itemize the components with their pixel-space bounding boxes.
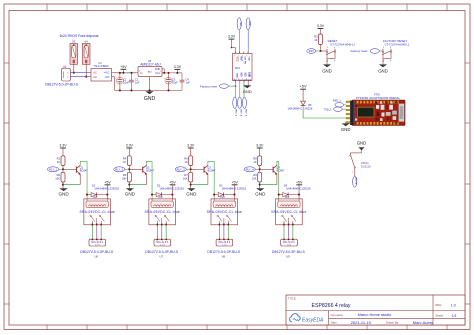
diode D3 (flyback) <box>213 184 246 197</box>
svg-text:GND: GND <box>125 191 136 196</box>
misc pcb parts <box>355 101 404 124</box>
relay output wires <box>283 225 285 239</box>
wire U2 pin2 to U1 <box>70 72 89 74</box>
svg-text:HLK-PM01: HLK-PM01 <box>94 64 109 68</box>
svg-text:Company:: Company: <box>331 313 344 317</box>
svg-text:SRA-05VDC-CL blue: SRA-05VDC-CL blue <box>271 210 306 214</box>
net flag TXD (vertical) <box>237 18 241 30</box>
svg-text:ADJ: ADJ <box>148 70 152 73</box>
ground (PROG) <box>350 141 366 155</box>
wire emitter to ground <box>146 174 148 185</box>
svg-text:2N016: 2N016 <box>304 107 312 111</box>
wire base <box>63 168 76 170</box>
svg-text:AMS1117-ADJ: AMS1117-ADJ <box>140 62 161 66</box>
svg-text:+5V: +5V <box>169 180 176 184</box>
wire D5 to FTDI <box>303 117 346 119</box>
relay output wires <box>218 225 220 239</box>
power flag +5V (relay 2) <box>169 180 176 199</box>
svg-text:RST: RST <box>309 49 315 53</box>
capacitor C2 <box>129 72 140 92</box>
diode D4 (flyback) <box>278 184 311 197</box>
svg-text:MK1: MK1 <box>235 67 241 70</box>
svg-text:-VO: -VO <box>104 75 110 79</box>
relay output wires <box>156 225 158 239</box>
svg-text:3.3V: 3.3V <box>317 24 325 28</box>
wire ESP IO2 down <box>243 80 245 97</box>
svg-text:Marc Aubry: Marc Aubry <box>413 320 433 325</box>
svg-text:DB127V-5.0-3P-BU-S: DB127V-5.0-3P-BU-S <box>80 250 114 254</box>
fuse U3 <box>70 39 78 73</box>
svg-text:1K: 1K <box>184 160 187 164</box>
wire U2 pin1 to U1 <box>70 76 89 78</box>
svg-text:Factory reset: Factory reset <box>351 49 368 53</box>
top pad row <box>357 101 399 104</box>
ground (ESP) <box>243 80 252 94</box>
wire -VO down to ground bus <box>114 76 115 78</box>
svg-text:RLY_1: RLY_1 <box>235 110 237 117</box>
svg-text:ESP8266 4 relay: ESP8266 4 relay <box>312 303 351 309</box>
net flag Factory reset (switch side) <box>351 49 383 54</box>
diode D5 <box>287 89 312 118</box>
power flag 3.3V (driver 2) <box>126 144 134 156</box>
ground (FTDI) <box>341 123 351 131</box>
resistor R5 <box>122 172 132 185</box>
ground (factory reset) <box>378 64 388 73</box>
svg-text:BC847: BC847 <box>208 169 216 173</box>
svg-text:FT232RL ADAPTADOR SERIAL: FT232RL ADAPTADOR SERIAL <box>356 96 401 100</box>
svg-text:1N4148W-C129216: 1N4148W-C129216 <box>286 186 311 190</box>
module FT01 FTDI adaptor serial <box>346 92 405 125</box>
net flag RLY_4 (vertical, PROG) <box>353 176 358 187</box>
resistor R2 <box>55 172 65 185</box>
svg-text:U2: U2 <box>63 64 67 68</box>
svg-text:+5V: +5V <box>300 85 307 89</box>
switch SW1 RESET <box>321 39 356 65</box>
resistor R1 <box>57 156 65 173</box>
wire emitter to ground <box>276 174 278 185</box>
svg-text:RXD_1: RXD_1 <box>333 100 342 103</box>
svg-text:3.3V: 3.3V <box>228 35 236 39</box>
transistor Q4 BC847 <box>273 165 285 175</box>
connector U7 output terminal <box>145 239 179 259</box>
svg-text:R6: R6 <box>184 157 188 161</box>
svg-text:10K: 10K <box>183 177 188 181</box>
svg-text:3: 3 <box>139 71 140 73</box>
net flag RLY_4 (driver input) <box>244 167 260 172</box>
ground (driver 1) <box>58 185 69 197</box>
net flag RLY_2 (driver input) <box>114 167 130 172</box>
net flag RXD (vertical) <box>246 18 250 30</box>
net flag RLY_1 (driver input) <box>47 167 63 172</box>
svg-text:RLY_4: RLY_4 <box>355 178 358 185</box>
net flag RLY_2 (vertical) <box>238 97 242 117</box>
svg-text:2: 2 <box>160 71 161 73</box>
ground (regulator) <box>144 89 156 102</box>
svg-text:+5V: +5V <box>296 180 303 184</box>
net flag RLY_1 (vertical) <box>233 97 237 117</box>
power flag +5V <box>120 65 127 74</box>
resistor R7 <box>183 172 193 185</box>
net flag RLY_3 (driver input) <box>175 167 191 172</box>
wire ESP pin RST column down <box>235 80 237 97</box>
svg-text:3.3V: 3.3V <box>174 65 182 69</box>
svg-text:2021-11-15: 2021-11-15 <box>351 320 372 325</box>
svg-text:2: 2 <box>352 171 353 173</box>
svg-text:3.3V: 3.3V <box>256 144 264 148</box>
wire factory reset to ESP pin <box>228 85 235 87</box>
svg-text:SRA-05VDC-CL blue: SRA-05VDC-CL blue <box>207 210 242 214</box>
resistor R8 <box>253 156 261 173</box>
module MK1 ESP-01S <box>233 52 253 83</box>
svg-text:5x20 RHOS Fuse disposal: 5x20 RHOS Fuse disposal <box>60 34 99 38</box>
svg-text:BC847: BC847 <box>146 169 154 173</box>
ground (driver 3) <box>186 185 197 197</box>
svg-text:GND: GND <box>378 69 388 74</box>
connector U2 (AC input) <box>62 64 71 81</box>
wire collector to relay <box>146 161 148 165</box>
svg-text:BC847: BC847 <box>277 169 285 173</box>
transistor Q1 BC847 <box>76 165 88 175</box>
svg-text:+5V: +5V <box>104 180 111 184</box>
svg-text:R1: R1 <box>57 157 61 161</box>
left header pins <box>346 101 353 125</box>
capacitor C1 <box>115 72 130 92</box>
svg-text:Drawn By:: Drawn By: <box>386 321 400 325</box>
power flag 3.3V (regulator out) <box>174 65 182 74</box>
svg-text:GND: GND <box>186 191 197 196</box>
border ticks top <box>47 4 447 11</box>
border ticks left <box>4 63 9 304</box>
svg-text:U6: U6 <box>94 255 98 259</box>
svg-text:1K: 1K <box>57 160 60 164</box>
svg-text:1N4148W-C129216: 1N4148W-C129216 <box>159 186 184 190</box>
svg-text:CH_PD: CH_PD <box>244 56 246 64</box>
svg-text:GND: GND <box>341 127 351 132</box>
blue pad column <box>354 102 356 122</box>
svg-text:+5V: +5V <box>231 180 238 184</box>
svg-text:1K: 1K <box>253 160 256 164</box>
svg-text:10K: 10K <box>55 177 60 181</box>
wire 3.3V rail <box>164 72 182 74</box>
diode D1 (flyback) <box>86 184 119 197</box>
power flag 3.3V (ESP) <box>228 35 236 54</box>
svg-text:1N4148W-C129216: 1N4148W-C129216 <box>94 186 119 190</box>
svg-text:R2: R2 <box>57 173 61 177</box>
wire TXD to ESP <box>238 30 240 54</box>
wire ESP IO0 down <box>239 80 241 97</box>
relay RL3 SRA-05VDC-CL <box>207 196 242 226</box>
connector U8 output terminal <box>207 239 241 259</box>
svg-text:R8: R8 <box>253 157 257 161</box>
svg-text:D5: D5 <box>308 103 312 107</box>
power flag +5V (relay 1) <box>104 180 111 199</box>
connector U6 output terminal <box>80 239 114 259</box>
svg-text:GT-TC07A4-H045-L1: GT-TC07A4-H045-L1 <box>330 42 355 46</box>
svg-text:R4: R4 <box>123 157 127 161</box>
svg-text:EG1218: EG1218 <box>361 165 371 169</box>
svg-text:VCC: VCC <box>235 56 238 61</box>
svg-text:RL4: RL4 <box>285 196 290 199</box>
svg-text:SRA-05VDC-CL blue: SRA-05VDC-CL blue <box>144 210 179 214</box>
diode D2 (flyback) <box>151 184 184 197</box>
wire base <box>129 168 142 170</box>
svg-text:GND: GND <box>357 141 367 146</box>
svg-text:1K: 1K <box>314 38 317 42</box>
border ticks bottom <box>47 325 447 330</box>
net flag TXD (FTDI side) <box>324 107 346 111</box>
svg-text:Sheet:: Sheet: <box>435 314 444 318</box>
transistor Q3 BC847 <box>204 165 216 175</box>
regulator U5 AMS1117 <box>136 59 165 90</box>
svg-text:Date:: Date: <box>331 321 338 325</box>
svg-text:R9: R9 <box>253 173 257 177</box>
svg-text:R7: R7 <box>184 173 188 177</box>
svg-text:U9: U9 <box>286 255 290 259</box>
wire emitter to ground <box>207 174 209 185</box>
svg-text:10K: 10K <box>252 177 257 181</box>
svg-text:10K: 10K <box>122 177 127 181</box>
resistor R3 <box>314 34 322 52</box>
svg-text:TXD: TXD <box>248 56 250 61</box>
svg-text:3.3V: 3.3V <box>59 144 67 148</box>
connector U9 output terminal <box>272 239 306 259</box>
power flag +5V (relay 3) <box>231 180 238 199</box>
svg-text:GND: GND <box>58 191 69 196</box>
ground (reset) <box>322 64 332 73</box>
relay RL2 SRA-05VDC-CL <box>144 196 179 226</box>
svg-text:8: 8 <box>234 56 235 58</box>
net flag RST <box>307 49 321 54</box>
svg-text:1K: 1K <box>123 160 126 164</box>
wire emitter to ground <box>79 174 81 185</box>
svg-text:Marco Home studio: Marco Home studio <box>358 312 392 317</box>
svg-text:DB127V-5.0-2P-BU-S: DB127V-5.0-2P-BU-S <box>45 82 79 86</box>
net flag RLY_3 (vertical) <box>242 97 246 117</box>
svg-text:U3: U3 <box>72 39 76 43</box>
wire collector to relay <box>207 161 209 165</box>
svg-text:RESET: RESET <box>328 39 338 43</box>
svg-text:GND: GND <box>255 191 266 196</box>
svg-text:GND: GND <box>248 72 251 78</box>
capacitor C3 <box>164 72 179 92</box>
svg-text:DB127V-5.0-3P-BU-S: DB127V-5.0-3P-BU-S <box>145 250 179 254</box>
svg-text:EasyEDA: EasyEDA <box>302 318 324 324</box>
svg-text:AC: AC <box>93 75 97 79</box>
svg-text:PROG: PROG <box>361 161 369 165</box>
svg-text:U7: U7 <box>159 255 163 259</box>
svg-text:IO0: IO0 <box>240 73 243 78</box>
svg-text:GT-TC07A4-H045-L1: GT-TC07A4-H045-L1 <box>385 42 410 46</box>
svg-text:RST: RST <box>240 57 243 62</box>
svg-text:RL1: RL1 <box>93 196 98 199</box>
svg-text:1uF: 1uF <box>185 81 190 85</box>
power flag 3.3V (driver 1) <box>59 144 67 156</box>
svg-text:SRA-05VDC-CL blue: SRA-05VDC-CL blue <box>79 210 114 214</box>
svg-text:TXD: TXD <box>239 22 241 27</box>
svg-text:1N4148W-C129216: 1N4148W-C129216 <box>221 186 246 190</box>
svg-text:RLY_3: RLY_3 <box>177 167 186 171</box>
wire base <box>191 168 204 170</box>
svg-text:TXD_1: TXD_1 <box>324 108 332 111</box>
svg-text:R3: R3 <box>314 35 318 39</box>
svg-text:3.3V: 3.3V <box>126 144 134 148</box>
border ticks right <box>465 63 470 304</box>
wire base <box>260 168 273 170</box>
net flag RXD (FTDI side) <box>333 100 346 108</box>
wire collector to relay <box>276 161 278 165</box>
switch SW2 FACTORY RESET <box>382 39 410 65</box>
svg-text:R5: R5 <box>123 173 127 177</box>
svg-text:DB127V-5.0-3P-BU-S: DB127V-5.0-3P-BU-S <box>207 250 241 254</box>
power flag 3.3V (driver 3) <box>187 144 195 156</box>
bottom pad row <box>357 122 399 125</box>
EasyEDA logo <box>290 314 324 324</box>
wire RXD to ESP <box>247 30 249 54</box>
svg-text:DB127V-5.0-3P-BU-S: DB127V-5.0-3P-BU-S <box>272 250 306 254</box>
wire +5V rail to U5 <box>114 72 137 74</box>
svg-text:U4: U4 <box>84 39 88 43</box>
wire collector to relay <box>79 161 81 165</box>
resistor R6 <box>184 156 192 173</box>
svg-text:RL2: RL2 <box>158 196 163 199</box>
svg-text:REV:: REV: <box>435 303 442 307</box>
power flag 3.3V (driver 4) <box>256 144 264 156</box>
svg-text:RLY_4: RLY_4 <box>246 167 255 171</box>
svg-text:RL3: RL3 <box>220 196 225 199</box>
relay RL4 SRA-05VDC-CL <box>271 196 306 226</box>
ground (driver 4) <box>255 185 266 197</box>
resistor R4 <box>123 156 131 173</box>
svg-text:RXD: RXD <box>235 73 237 78</box>
svg-text:10uF: 10uF <box>172 81 178 85</box>
svg-text:1N4148W-C: 1N4148W-C <box>287 107 302 111</box>
svg-text:+5V: +5V <box>120 65 127 69</box>
svg-text:RLY_3: RLY_3 <box>244 110 246 117</box>
svg-text:RLY_2: RLY_2 <box>115 167 124 171</box>
capacitor C4 <box>180 73 191 91</box>
svg-text:RLY_2: RLY_2 <box>240 110 242 117</box>
relay RL1 SRA-05VDC-CL <box>79 196 114 226</box>
svg-text:3.3V: 3.3V <box>187 144 195 148</box>
wire FTDI pin to ground <box>345 122 347 124</box>
svg-text:1uF: 1uF <box>135 81 140 85</box>
power flag 3.3V (reset) <box>317 24 325 34</box>
net flag Factory reset (ESP side) <box>200 84 228 88</box>
svg-text:GND: GND <box>322 69 332 74</box>
svg-text:U8: U8 <box>222 255 226 259</box>
svg-text:RLY_1: RLY_1 <box>49 167 58 171</box>
svg-text:1.0: 1.0 <box>451 303 456 307</box>
svg-text:Factory reset: Factory reset <box>200 84 217 88</box>
svg-text:1/1: 1/1 <box>452 314 457 318</box>
switch PROG EG1218 <box>350 155 371 176</box>
svg-text:RXD: RXD <box>248 22 250 27</box>
svg-text:TITLE:: TITLE: <box>288 296 297 300</box>
svg-text:IO2: IO2 <box>244 73 247 78</box>
module U1 HLK-PM01 <box>90 61 114 81</box>
power flag +5V (relay 4) <box>296 180 303 199</box>
fuse U4 <box>82 39 90 77</box>
relay output wires <box>91 225 93 239</box>
svg-text:FACTORY RESET: FACTORY RESET <box>383 39 407 43</box>
ground bus <box>115 89 183 91</box>
resistor R9 <box>252 172 262 185</box>
transistor Q2 BC847 <box>143 165 155 175</box>
title block <box>286 295 465 325</box>
svg-text:GND: GND <box>243 89 252 94</box>
svg-text:10uF: 10uF <box>123 81 129 85</box>
svg-text:GND: GND <box>144 96 156 102</box>
ground (driver 2) <box>125 185 136 197</box>
chip <box>358 107 375 117</box>
power flag +5V (FTDI) <box>300 85 307 90</box>
